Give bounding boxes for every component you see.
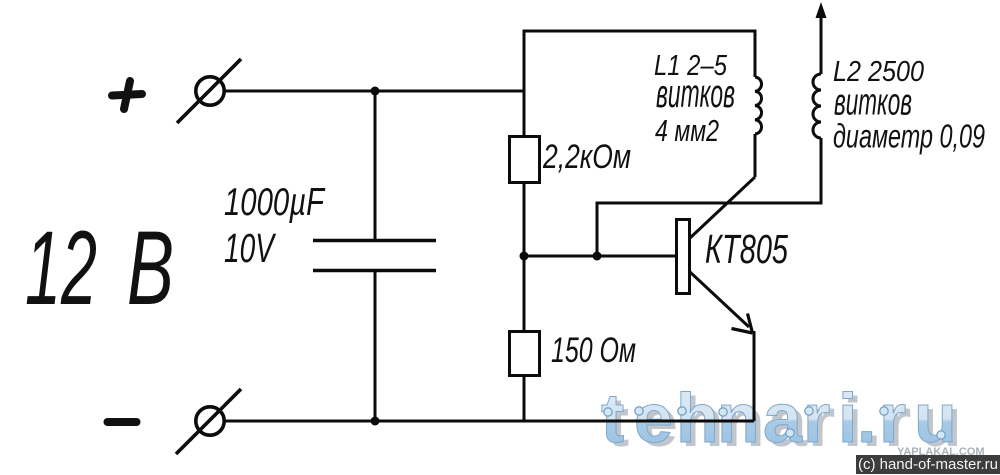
capacitor C1 plates [313,241,436,271]
junction: riser node [593,252,602,261]
wire: feedback horizontal to L2 [596,202,822,205]
wire: left vertical upper (top loop to R1) [523,30,526,137]
svg-text:12: 12 [25,210,97,327]
watermark screws [604,407,945,439]
resistor R1 2,2kOm body [510,137,540,183]
wire: right vertical below L1 [754,134,757,177]
svg-text:150 Ом: 150 Ом [551,331,636,370]
wire: + terminal to left vertical [224,90,524,93]
wire: top loop horizontal [524,30,755,33]
svg-text:h: h [676,379,719,457]
wire: collector diagonal to transistor [690,177,755,238]
copyright box [856,455,1000,474]
wire: L2 bottom vertical [820,138,823,205]
wire: capacitor top lead [374,91,377,239]
svg-text:.: . [857,379,876,457]
wire: capacitor bottom lead [374,271,377,421]
junction: base node left [520,252,529,261]
watermark tehnari.ru body [601,379,957,457]
wire: base wire [524,255,676,258]
svg-text:i: i [838,379,857,457]
junction: top capacitor node [371,87,380,96]
svg-text:1000µF: 1000µF [224,181,326,224]
svg-text:2,2кОм: 2,2кОм [542,138,631,176]
svg-text:диаметр 0,09: диаметр 0,09 [833,118,985,155]
wire: riser from base node [596,203,599,256]
terminal + (input clamp top) [177,59,241,123]
svg-text:витков: витков [656,72,735,116]
transistor Q1 emitter arrowhead [732,314,753,334]
wire: bottom wire [224,420,754,423]
antenna arrowhead (top of L2) [816,2,827,18]
transistor Q1 base bar [677,220,690,294]
svg-text:КТ805: КТ805 [705,226,788,272]
svg-text:10V: 10V [224,225,277,271]
wire: L2 top vertical (antenna lead) [820,12,823,74]
wire: right vertical above L1 [754,30,757,78]
minus sign label [108,418,137,426]
junction: bottom capacitor node [371,417,380,426]
plus sign label [112,81,142,109]
resistor R2 150 Om body [510,332,540,376]
terminal - (input clamp bottom) [176,389,241,454]
svg-text:e: e [634,379,673,457]
watermark tehnari.ru shadow [606,383,962,461]
svg-text:4 мм2: 4 мм2 [655,113,719,148]
inductor L1 coil [755,77,762,134]
svg-text:r: r [803,379,830,457]
wire: emitter vertical [753,331,756,421]
svg-text:a: a [763,379,803,457]
svg-text:t: t [601,379,624,457]
svg-text:В: В [127,210,174,327]
watermark yaplakal [897,446,985,458]
wire: left vertical lower (R2 to bottom wire) [523,376,526,421]
wire: emitter diagonal [690,272,749,327]
wire: left vertical middle (R1 to R2) [523,183,526,331]
inductor L2 coil [813,74,821,138]
